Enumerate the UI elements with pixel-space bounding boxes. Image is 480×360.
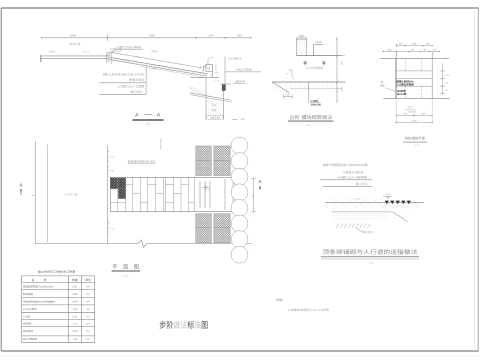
svg-text:70厚C25砼(6高级): 70厚C25砼(6高级): [116, 45, 142, 49]
step detail : step block: [296, 35, 306, 55]
svg-text:顶条砖铺砌与人行道的连接做法: 顶条砖铺砌与人行道的连接做法: [323, 249, 418, 256]
paving plan : title: [403, 136, 427, 147]
svg-text:MU10砖砌体: MU10砖砌体: [23, 337, 38, 341]
walk section : title: [321, 249, 419, 265]
svg-text:C15砼: C15砼: [311, 99, 319, 103]
step detail : 300 dimension: [283, 94, 292, 99]
plan : shrub circles: [231, 137, 248, 263]
svg-text:一般土(天然)面: 一般土(天然)面: [234, 68, 252, 72]
plan : bottom boundary with break: [35, 240, 252, 248]
svg-text:1:2.5水泥砂浆: 1:2.5水泥砂浆: [306, 66, 324, 70]
svg-text:1100: 1100: [412, 119, 418, 122]
svg-text:1.本图做法适用于(1:2~1:4)步阶.: 1.本图做法适用于(1:2~1:4)步阶.: [288, 308, 331, 312]
svg-text:300: 300: [399, 43, 404, 46]
svg-text:m³: m³: [87, 301, 90, 304]
walk section : surface line: [331, 198, 383, 202]
svg-text:1:10: 1:10: [369, 262, 374, 265]
svg-text:M5砂浆: M5砂浆: [397, 89, 406, 93]
svg-text:梯级铺砌平面: 梯级铺砌平面: [405, 136, 426, 140]
svg-text:m³: m³: [87, 323, 90, 326]
svg-text:砼斜坡面: 砼斜坡面: [23, 292, 34, 296]
plan : left boundary verticals: [35, 141, 47, 244]
plan : steps flight lines: [200, 179, 225, 210]
svg-text:M5砂浆: M5砂浆: [23, 322, 32, 326]
section A-A : 1:8 slope label: [232, 117, 245, 121]
svg-text:300x300: 300x300: [311, 103, 322, 106]
walk section : speckle under surface: [330, 203, 420, 209]
svg-text:单位: 单位: [85, 278, 91, 282]
svg-text:1:8: 1:8: [241, 117, 245, 121]
svg-text:350: 350: [299, 35, 304, 38]
svg-text:1:10: 1:10: [415, 144, 420, 147]
svg-text:150厚C15(4~1)垫层: 150厚C15(4~1)垫层: [118, 85, 145, 89]
svg-text:m²: m²: [87, 286, 90, 289]
walk section : level mark: [383, 193, 392, 199]
svg-text:1:10: 1:10: [306, 124, 312, 127]
svg-text:台阶 模块砌筑做法: 台阶 模块砌筑做法: [290, 114, 333, 121]
svg-text:545: 545: [412, 43, 417, 46]
svg-text:i=2.5: i=2.5: [83, 49, 90, 53]
section A-A : upper walkway double line: [40, 49, 109, 62]
section A-A : foundation pit below curb: [190, 77, 232, 119]
svg-text:素土夯实: 素土夯实: [130, 90, 142, 94]
svg-text:荔枝面花岗岩700x300: 荔枝面花岗岩700x300: [128, 159, 156, 163]
svg-text:C15: C15: [212, 104, 217, 107]
svg-text:300: 300: [286, 94, 291, 97]
svg-text:MU10砖: MU10砖: [397, 92, 407, 96]
svg-text:咬口: 咬口: [408, 105, 413, 109]
walk section : sub-base outline: [332, 212, 408, 222]
svg-text:1.43: 1.43: [72, 338, 77, 341]
svg-text:刷素水泥浆: 刷素水泥浆: [129, 78, 144, 82]
svg-text:3:7灰土垫层: 3:7灰土垫层: [23, 307, 37, 311]
svg-text:荔枝面花岗岩300x150,侧面磨边: 荔枝面花岗岩300x150,侧面磨边: [23, 301, 56, 304]
step detail : ground line and speckle: [272, 82, 346, 92]
step detail : C15 leader labels: [309, 82, 322, 106]
svg-text:0.84: 0.84: [72, 293, 77, 296]
plan : planting bed top-right: [214, 146, 230, 176]
section A-A : sloped dimension line 7500: [111, 49, 201, 69]
svg-text:面: 面: [123, 263, 128, 270]
svg-text:9.60: 9.60: [110, 170, 114, 173]
svg-text:4000: 4000: [70, 34, 77, 38]
svg-text:9.75: 9.75: [110, 156, 114, 159]
svg-text:白麻已烧面花岗岩, 600x300x30厚: 白麻已烧面花岗岩, 600x300x30厚: [323, 163, 368, 167]
svg-text:7#57:33: 7#57:33: [210, 117, 220, 120]
svg-text:每m米步阶工程做法工程量: 每m米步阶工程做法工程量: [38, 270, 77, 274]
walk section : soil leader label: [355, 228, 373, 234]
svg-text:9.45: 9.45: [110, 227, 114, 230]
svg-text:600: 600: [421, 112, 426, 115]
svg-text:M4.4排水沟: M4.4排水沟: [228, 56, 242, 60]
paving plan : left leader note: [380, 81, 396, 92]
plan : planting bed top-left: [196, 146, 212, 176]
walk section : soil hatch: [337, 224, 371, 228]
notes block: [276, 298, 330, 312]
svg-text:m³: m³: [87, 330, 90, 333]
paving plan : course lines: [396, 58, 432, 98]
svg-text:1:2砂浆: 1:2砂浆: [149, 67, 158, 71]
paving plan : lower dims: [396, 100, 433, 125]
svg-text:滑条: 滑条: [380, 84, 385, 88]
svg-text:1:25: 1:25: [145, 121, 151, 125]
section A-A : ramp slope surface with hatch: [110, 57, 208, 77]
section A-A : curb small marks: [205, 66, 221, 98]
svg-text:A: A: [135, 113, 139, 119]
svg-text:图: 图: [134, 263, 139, 270]
step detail : title: [288, 114, 334, 127]
svg-text:450: 450: [340, 61, 343, 66]
paving plan : right dim chain: [440, 63, 450, 94]
svg-text:m³: m³: [87, 316, 90, 319]
svg-text:130: 130: [387, 48, 392, 51]
svg-text:300: 300: [426, 43, 431, 46]
quantity table text: [23, 278, 91, 341]
svg-text:0.41: 0.41: [72, 316, 77, 319]
plan : paving band outline: [110, 177, 233, 211]
plan : section marker A left: [19, 183, 35, 196]
svg-text:i=2%: i=2%: [49, 50, 56, 54]
plan : right dimension line: [251, 178, 256, 213]
plan : planting bed bottom-right: [214, 214, 230, 243]
svg-text:5000: 5000: [149, 34, 156, 38]
plan : paving band label: [128, 159, 156, 163]
step detail : small leader: [286, 70, 294, 80]
svg-text:340: 340: [237, 34, 242, 38]
step detail : grass symbols: [303, 62, 325, 66]
svg-text:0.65: 0.65: [72, 301, 77, 304]
step detail : right dimension line: [334, 38, 346, 103]
section A-A : curb post at slope top: [107, 48, 121, 64]
section A-A : landing line and labels right: [225, 56, 261, 84]
paving plan : bottom edge line: [383, 98, 450, 100]
section A-A : drawing title A-A: [132, 113, 163, 126]
svg-text:500: 500: [403, 112, 408, 115]
svg-text:数量: 数量: [72, 278, 78, 282]
svg-text:水泥砂浆: 水泥砂浆: [408, 111, 418, 114]
svg-text:名: 名: [32, 278, 35, 282]
section A-A : material callout block: [99, 67, 157, 95]
svg-text:说明:: 说明:: [276, 298, 283, 302]
svg-text:m²: m²: [87, 293, 90, 296]
svg-text:级配碎石: 级配碎石: [235, 80, 246, 84]
svg-text:3300: 3300: [251, 194, 254, 200]
svg-text:500: 500: [209, 34, 214, 38]
plan : leader stub above band: [160, 139, 162, 150]
paving plan : dark label rows: [396, 79, 414, 96]
svg-text:C15砼: C15砼: [23, 315, 31, 319]
section A-A : soil hatch left of pit: [189, 86, 206, 96]
svg-text:150: 150: [340, 87, 343, 92]
svg-text:碎石垫层: 碎石垫层: [23, 329, 34, 333]
svg-text:称: 称: [44, 278, 47, 282]
step detail : left excavation slope: [272, 82, 290, 93]
paving plan : top edge line: [380, 57, 449, 59]
plan : title: [112, 263, 141, 277]
svg-text:150厚C15(4~6)砼垫层: 150厚C15(4~6)砼垫层: [337, 176, 367, 180]
svg-text:荔枝面花岗岩700x300x30m: 荔枝面花岗岩700x300x30m: [23, 285, 54, 289]
quantity table grid: [22, 276, 95, 342]
svg-text:0.29: 0.29: [72, 330, 77, 333]
sheet big title: [159, 320, 208, 330]
step detail : 125 bracket: [314, 40, 324, 55]
svg-text:m³: m³: [87, 308, 90, 311]
section A-A : label 70厚C25砼 with underline: [111, 45, 144, 55]
svg-text:步阶做法标准图: 步阶做法标准图: [159, 320, 208, 330]
section A-A : curb detail at ramp foot: [191, 57, 220, 77]
svg-text:平: 平: [112, 263, 117, 270]
svg-text:7.46: 7.46: [72, 308, 77, 311]
plan : west edge tick line: [107, 145, 114, 244]
svg-text:场地平整: 场地平整: [69, 42, 80, 46]
plan : dark granite block: [110, 178, 125, 199]
svg-text:125厚: 125厚: [315, 40, 322, 44]
svg-text:120: 120: [433, 48, 438, 51]
svg-text:砼基: 砼基: [212, 108, 217, 112]
svg-text:1:50: 1:50: [123, 275, 129, 278]
paving plan : upper dim line 1: [396, 43, 433, 47]
plan : section marker A right: [258, 179, 262, 190]
svg-text:1.12: 1.12: [72, 323, 77, 326]
paving plan : verticals: [395, 51, 432, 98]
walk section : tamped triangles: [385, 201, 411, 205]
svg-text:干硬性水泥砂浆: 干硬性水泥砂浆: [342, 170, 363, 174]
walk section : callout rows: [320, 163, 372, 187]
plan : paving joints: [110, 177, 194, 211]
svg-text:素土夯实: 素土夯实: [356, 182, 368, 186]
svg-text:C20细石砼垫层: C20细石砼垫层: [396, 83, 414, 87]
svg-text:m³: m³: [87, 338, 90, 341]
paving plan : upper dim line 2: [383, 43, 440, 52]
svg-text:0.31: 0.31: [72, 286, 77, 289]
svg-text:素土夯实: 素土夯实: [362, 230, 373, 234]
plan : planting bed bottom-left: [196, 214, 212, 243]
svg-text:混凝土砌块600: 混凝土砌块600: [396, 79, 414, 83]
svg-text:A: A: [157, 113, 161, 119]
step detail : base line: [296, 55, 342, 57]
svg-text:入口广场: 入口广场: [64, 192, 77, 196]
svg-text:6厚1:2白水泥:白石子浆 d74491: 6厚1:2白水泥:白石子浆 d74491: [103, 72, 145, 76]
section A-A : top dimension line: [41, 34, 252, 42]
